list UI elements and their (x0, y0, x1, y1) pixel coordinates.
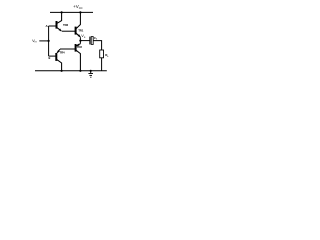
wire TR3 collector to rail (57, 12, 62, 23)
wire TR4 base (49, 55, 56, 57)
0V bottom rail (35, 70, 107, 72)
wire Vin (39, 40, 48, 42)
transistor TR4 emitter with arrow toward bar (PNP) (57, 49, 60, 53)
node junction dot TR1 collector on rail (79, 11, 81, 13)
wire TR1 collector to rail (76, 12, 80, 28)
node junction dot ground on rail (90, 70, 92, 72)
wire TR3 base (49, 25, 56, 27)
wire TR3 emitter to TR1 base (62, 30, 75, 32)
node junction dot TR3 collector on rail (61, 11, 63, 13)
node junction dot TR4 collector on rail (61, 70, 63, 72)
wire resistor to 0V rail (101, 58, 103, 71)
node junction dot TR2 collector on rail (79, 70, 81, 72)
wire node A vertical input bus (48, 26, 50, 56)
transistor Q TR3 base bar (56, 21, 58, 29)
transistor TR2 collector down (76, 50, 80, 71)
svg-text:B: B (49, 56, 51, 60)
node junction dot Vin (48, 40, 50, 42)
wire capacitor to load corner (93, 41, 101, 50)
transistor TR4 collector down to 0V rail (57, 59, 62, 70)
wire TR1 emitter down to Vo node (79, 37, 81, 40)
transistor TR1 emitter with arrow (76, 33, 80, 37)
wire Vo node to capacitor (80, 40, 90, 42)
svg-text:TR1: TR1 (78, 29, 84, 33)
transistor TR2 emitter with arrow toward bar (PNP) (76, 44, 80, 46)
wire TR4 emitter to TR2 base (60, 48, 75, 50)
capacitor C1 right plate (hollow) (91, 37, 93, 45)
transistor TR4 base bar (55, 53, 57, 61)
transistor TR2 base bar (75, 44, 77, 52)
wire Vo node down to TR2 emitter (79, 41, 81, 44)
node junction dot Vo (79, 40, 81, 42)
+Vcc power rail (50, 11, 93, 13)
transistor TR1 base bar (75, 27, 77, 35)
capacitor C1 left plate (89, 37, 91, 45)
svg-text:TR2: TR2 (77, 45, 83, 49)
ground symbol (90, 71, 92, 74)
resistor RL body (100, 50, 104, 58)
svg-text:TR4: TR4 (60, 51, 66, 55)
transistor TR3 emitter with arrow (57, 28, 61, 31)
svg-text:TR3: TR3 (63, 23, 69, 27)
